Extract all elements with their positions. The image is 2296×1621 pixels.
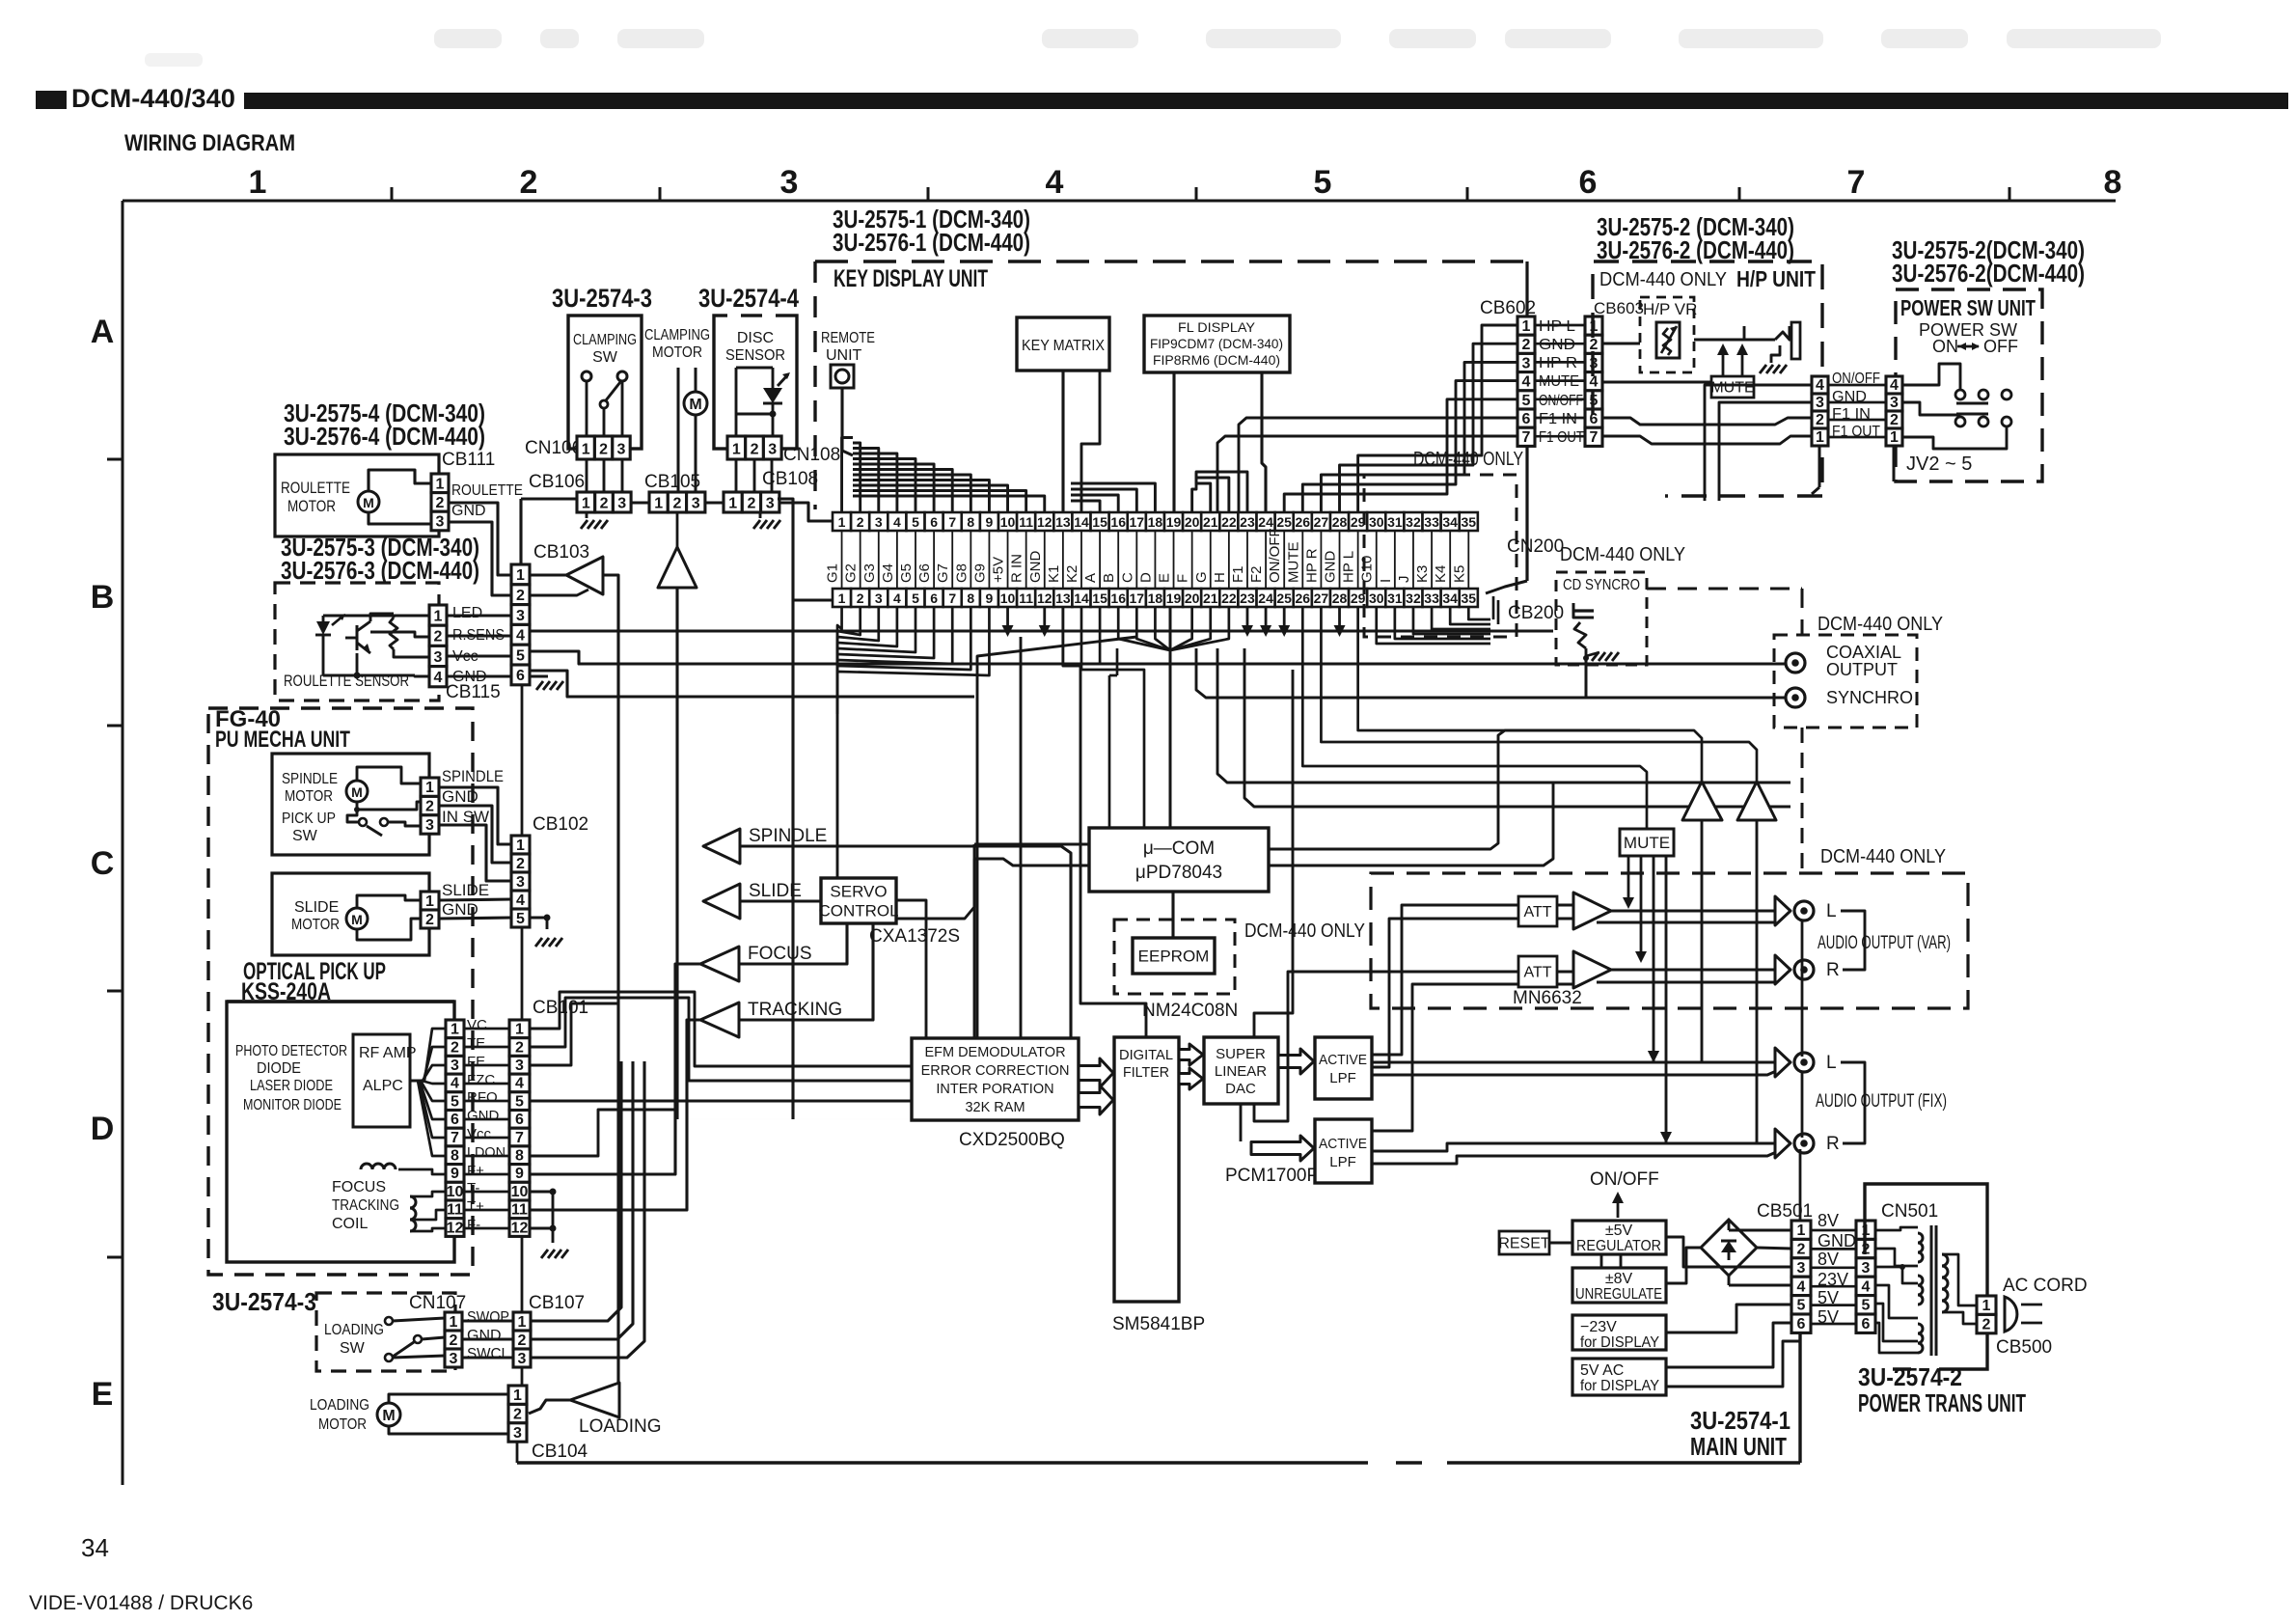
svg-text:15: 15 [1092, 591, 1107, 606]
wire CB108 pin3 down the page [778, 499, 793, 1119]
wire CB106-CB105 link [631, 501, 649, 504]
wire CB603 pin6 to power sw F1 [1602, 418, 1812, 425]
svg-text:POWER TRANS UNIT: POWER TRANS UNIT [1858, 1388, 2026, 1417]
svg-text:MOTOR: MOTOR [652, 344, 702, 361]
FIX R jack [1794, 1134, 1814, 1153]
wire DAC down to LPF2 [1240, 1104, 1243, 1141]
svg-text:33: 33 [1424, 514, 1439, 530]
wire mu-com bus to right 836 [1244, 648, 1790, 807]
wires coils to pickup connector [398, 1169, 446, 1174]
svg-text:8V: 8V [1818, 1211, 1839, 1230]
wires CN200 pins 26 27 29 down [1302, 607, 1647, 829]
svg-text:COAXIAL: COAXIAL [1826, 643, 1901, 662]
wires slide connector to CB102 [439, 899, 511, 900]
svg-text:FILTER: FILTER [1123, 1064, 1169, 1081]
clamping drive amp [658, 547, 697, 588]
slide motor M4 [346, 908, 368, 929]
CN200 inter-row wires [841, 531, 843, 589]
svg-text:PHOTO DETECTOR: PHOTO DETECTOR [235, 1043, 347, 1059]
svg-text:3U-2574-2: 3U-2574-2 [1858, 1362, 1962, 1391]
svg-text:R IN: R IN [1009, 554, 1025, 583]
svg-text:1: 1 [436, 476, 445, 492]
svg-text:DCM-440 ONLY: DCM-440 ONLY [1413, 449, 1523, 470]
svg-text:1: 1 [434, 609, 443, 625]
wire unregulate to bridge [1666, 1248, 1701, 1283]
+-5V regulator box [1572, 1221, 1666, 1254]
svg-text:ON/OFF: ON/OFF [1590, 1169, 1659, 1190]
svg-text:F1: F1 [1230, 565, 1246, 583]
wire slide amp to servo control [740, 899, 821, 902]
wire GND from 4-pin strip [1719, 402, 1812, 501]
wire ON/OFF from 4-pin strip [1705, 385, 1812, 501]
svg-text:MUTE: MUTE [1624, 834, 1670, 852]
svg-text:3: 3 [434, 649, 443, 666]
svg-text:4: 4 [515, 1076, 524, 1092]
svg-text:16: 16 [1110, 591, 1126, 606]
wire CB108 to key display unit [779, 503, 833, 521]
svg-text:H: H [1212, 572, 1228, 583]
svg-text:25: 25 [1276, 514, 1292, 530]
remote unit sensor [831, 365, 854, 388]
svg-text:3: 3 [766, 495, 775, 511]
wire RFO to EFM demodulator [530, 1099, 912, 1102]
bridge rectifier [1701, 1220, 1757, 1276]
svg-text:CN108: CN108 [783, 445, 840, 465]
svg-text:CN106: CN106 [525, 438, 582, 458]
pick up switch [359, 818, 367, 826]
svg-text:SPINDLE: SPINDLE [282, 771, 338, 787]
svg-text:1: 1 [1522, 318, 1531, 335]
wire tracking amp to servo [739, 923, 873, 1020]
photo LED of roulette sensor [316, 621, 330, 635]
wire CB105-CB108 link [705, 501, 724, 504]
wires ATT R to var amp [1557, 971, 1573, 974]
svg-text:ACTIVE: ACTIVE [1319, 1136, 1367, 1152]
svg-text:3: 3 [875, 514, 883, 530]
svg-text:GND: GND [1818, 1231, 1856, 1250]
dashed link cd syncro to coax box [1647, 588, 1802, 591]
wire spindle long line [740, 846, 1071, 1038]
svg-text:EFM DEMODULATOR: EFM DEMODULATOR [924, 1045, 1065, 1060]
-23V for display box [1572, 1315, 1666, 1350]
svg-text:21: 21 [1203, 591, 1218, 606]
svg-text:5: 5 [515, 1093, 524, 1110]
svg-text:Vcc: Vcc [467, 1126, 492, 1142]
top ruler line [123, 200, 2116, 203]
ground at CB103 pin6 [530, 674, 548, 677]
focus coil [361, 1164, 396, 1169]
svg-text:SLIDE: SLIDE [442, 881, 489, 899]
svg-text:L: L [1826, 901, 1837, 921]
svg-text:DIODE: DIODE [257, 1060, 301, 1077]
svg-text:FL DISPLAY: FL DISPLAY [1178, 319, 1256, 335]
svg-text:F1 IN: F1 IN [1539, 411, 1577, 427]
svg-text:B: B [91, 579, 115, 616]
svg-text:5: 5 [1522, 393, 1531, 409]
wire CB603 pin4 to mute [1602, 381, 1711, 384]
svg-text:CB104: CB104 [532, 1442, 588, 1462]
arrow on/off up [1617, 1195, 1620, 1218]
svg-text:2: 2 [513, 1407, 522, 1423]
svg-text:μ—COM: μ—COM [1143, 838, 1215, 859]
left border line [122, 201, 124, 1485]
svg-text:LOADING: LOADING [310, 1397, 369, 1414]
svg-text:2: 2 [434, 629, 443, 646]
svg-text:INTER PORATION: INTER PORATION [936, 1082, 1053, 1097]
svg-text:31: 31 [1387, 514, 1403, 530]
svg-text:B: B [1101, 573, 1117, 583]
svg-text:25: 25 [1276, 591, 1292, 606]
wire CB103 pin1 to roulette amp [531, 573, 566, 576]
wire loading amp to CB104 [529, 1400, 570, 1414]
svg-text:16: 16 [1110, 514, 1126, 530]
svg-text:4: 4 [516, 893, 525, 909]
block arrows filter to DAC [1179, 1044, 1203, 1065]
svg-text:20: 20 [1185, 591, 1200, 606]
svg-text:1: 1 [513, 1387, 522, 1404]
svg-text:D: D [1137, 572, 1154, 583]
svg-text:4: 4 [893, 514, 901, 530]
svg-text:4: 4 [1522, 374, 1531, 391]
transformer secondary winding [1942, 1254, 1948, 1312]
wires mu-com left side [837, 675, 974, 919]
wire remote unit to connector [842, 388, 853, 455]
var L R bracket [1841, 911, 1865, 970]
left border ticks [107, 458, 123, 461]
svg-text:3: 3 [1862, 1260, 1871, 1277]
svg-text:for DISPLAY: for DISPLAY [1580, 1334, 1659, 1351]
fix line amp R [1737, 782, 1776, 820]
spindle drive amp [703, 829, 740, 864]
svg-text:1: 1 [654, 495, 663, 511]
svg-text:FE: FE [467, 1054, 485, 1070]
pickup side connector [446, 1020, 464, 1038]
svg-text:GND: GND [442, 787, 478, 806]
svg-text:3U-2574-3: 3U-2574-3 [212, 1287, 316, 1316]
svg-text:8: 8 [967, 514, 974, 530]
svg-text:3: 3 [692, 495, 700, 511]
svg-text:M: M [689, 397, 701, 413]
svg-text:3: 3 [1797, 1260, 1806, 1277]
H/P VR potentiometer [1656, 322, 1680, 358]
svg-text:F-: F- [467, 1217, 480, 1233]
svg-text:2: 2 [518, 1333, 527, 1349]
svg-text:KEY MATRIX: KEY MATRIX [1022, 338, 1105, 354]
wire cd syncro down to synchro jack [1585, 658, 1588, 697]
wire 5VAC box to CB501 [1666, 1323, 1791, 1367]
svg-text:1: 1 [582, 495, 590, 511]
wire bundle CN200 pins 25-29 to CB602 [1284, 399, 1517, 512]
wire CB101 col down to CB107 [521, 1236, 524, 1312]
wires loading motor to CB104 [389, 1394, 508, 1403]
svg-text:2: 2 [1590, 337, 1599, 353]
loading drive amp [570, 1383, 619, 1417]
svg-text:1: 1 [515, 1022, 524, 1038]
power arrows CN200 pins 10 12 [1006, 607, 1009, 634]
wire key matrix to CN200 pin13 [1061, 371, 1064, 512]
svg-text:CB500: CB500 [1996, 1337, 2052, 1358]
power sw unit dashed box [1896, 289, 2042, 481]
svg-text:K2: K2 [1064, 565, 1080, 583]
svg-text:GND: GND [442, 900, 478, 919]
grounds at CB101 pins 10 12 [550, 1189, 557, 1195]
cd syncro jack [1573, 603, 1594, 618]
wire FL display to CN200 pin19 [1172, 372, 1175, 512]
tracking drive amp [700, 1003, 739, 1037]
svg-text:7: 7 [515, 1130, 524, 1146]
svg-text:11: 11 [447, 1202, 463, 1219]
svg-text:M: M [351, 912, 363, 927]
svg-text:3: 3 [518, 1351, 527, 1367]
svg-text:T+: T+ [467, 1198, 484, 1215]
svg-text:5: 5 [451, 1093, 459, 1110]
svg-text:F+: F+ [467, 1163, 484, 1179]
wire 5VAC second [1666, 1341, 1800, 1387]
DIGITAL FILTER box [1114, 1037, 1179, 1302]
svg-text:1: 1 [516, 838, 525, 854]
wire bundle CN200 pins 15-18 to key matrix [1071, 501, 1100, 512]
svg-text:18: 18 [1148, 591, 1163, 606]
wires CB501 to CN501 [1811, 1229, 1856, 1232]
svg-text:14: 14 [1074, 514, 1089, 530]
svg-text:REGULATOR: REGULATOR [1576, 1238, 1661, 1254]
svg-text:5: 5 [1314, 164, 1332, 201]
svg-text:PICK UP: PICK UP [282, 810, 336, 827]
RF AMP ALPC box [353, 1034, 410, 1127]
svg-text:7: 7 [1847, 164, 1866, 201]
svg-text:10: 10 [511, 1184, 529, 1200]
svg-text:SWCL: SWCL [467, 1346, 509, 1362]
svg-text:PCM1700P: PCM1700P [1225, 1166, 1319, 1186]
top ruler ticks [391, 187, 394, 201]
svg-text:AC CORD: AC CORD [2003, 1276, 2088, 1296]
svg-text:R: R [1826, 960, 1840, 980]
svg-text:14: 14 [1074, 591, 1089, 606]
svg-text:SLIDE: SLIDE [749, 881, 802, 901]
svg-text:11: 11 [1019, 514, 1033, 530]
svg-text:E: E [1157, 573, 1173, 583]
svg-text:REMOTE: REMOTE [821, 330, 875, 346]
wires secondary to CB500 [1942, 1254, 1977, 1305]
svg-text:I: I [1378, 579, 1394, 583]
svg-text:G5: G5 [898, 563, 915, 583]
svg-text:+5V: +5V [991, 557, 1007, 583]
wire R.SENS long line [531, 629, 1553, 632]
block arrow DAC to LPF2 [1251, 1136, 1314, 1161]
svg-text:2: 2 [1797, 1242, 1806, 1258]
svg-text:19: 19 [1166, 514, 1182, 530]
H/P VR dashed box [1640, 297, 1694, 372]
svg-text:MUTE: MUTE [1710, 380, 1754, 397]
svg-text:5: 5 [516, 911, 525, 927]
svg-text:3: 3 [516, 608, 525, 624]
svg-text:11: 11 [511, 1202, 528, 1219]
page header black tab [36, 91, 67, 109]
svg-text:3: 3 [516, 874, 525, 891]
svg-text:6: 6 [515, 1112, 524, 1128]
wire CN200 pin20 to synchro line [1196, 648, 1786, 698]
svg-text:SENSOR: SENSOR [725, 347, 785, 364]
wire roulette motor to CB111 [369, 470, 431, 491]
svg-text:1: 1 [425, 780, 434, 796]
svg-text:ROULETTE: ROULETTE [451, 482, 523, 499]
svg-text:5: 5 [912, 591, 919, 606]
svg-text:JV2 ~ 5: JV2 ~ 5 [1906, 453, 1972, 475]
svg-text:DAC: DAC [1225, 1081, 1256, 1097]
MUTE box (main) [1620, 829, 1674, 856]
svg-text:34: 34 [81, 1533, 109, 1562]
ACTIVE LPF box 2 [1315, 1119, 1372, 1183]
svg-text:30: 30 [1369, 591, 1384, 606]
svg-text:FZC: FZC [467, 1072, 495, 1088]
wires CB602 to CB603 [1535, 324, 1585, 327]
SUPER LINEAR DAC box [1204, 1037, 1278, 1104]
spindle motor wires [357, 767, 421, 783]
svg-text:28: 28 [1332, 514, 1348, 530]
svg-text:23: 23 [1240, 591, 1255, 606]
svg-text:10: 10 [1000, 514, 1016, 530]
svg-text:CN501: CN501 [1881, 1201, 1938, 1222]
svg-text:D: D [91, 1111, 115, 1147]
svg-text:2: 2 [436, 495, 445, 511]
svg-text:12: 12 [1037, 591, 1052, 606]
wire bundle CN200 pins 20-23 to FL display [1192, 473, 1196, 512]
svg-text:GND: GND [467, 1328, 502, 1344]
wire jack column to CB501 [1801, 920, 1804, 1057]
optical pickup box [227, 1002, 454, 1262]
svg-text:LDON: LDON [467, 1144, 506, 1161]
svg-text:CB102: CB102 [533, 814, 588, 835]
block arrow DAC to LPF1 [1278, 1049, 1314, 1074]
svg-text:for DISPLAY: for DISPLAY [1580, 1378, 1659, 1394]
EEPROM dashed box [1114, 920, 1235, 994]
svg-text:FOCUS: FOCUS [748, 944, 812, 964]
EFM demodulator box [912, 1038, 1079, 1120]
svg-text:3U-2576-3 (DCM-440): 3U-2576-3 (DCM-440) [281, 556, 479, 585]
wire fix R vertical [1756, 820, 1759, 1143]
transformer primary windings [1918, 1233, 1923, 1262]
wire LPF2 out to fix R [1372, 1143, 1775, 1151]
svg-text:6: 6 [1522, 411, 1531, 427]
svg-text:3: 3 [780, 164, 799, 201]
svg-text:PU MECHA UNIT: PU MECHA UNIT [215, 727, 350, 753]
svg-text:9: 9 [986, 591, 994, 606]
svg-text:DISC: DISC [737, 330, 774, 346]
svg-text:27: 27 [1314, 514, 1329, 530]
svg-text:20: 20 [1185, 514, 1200, 530]
svg-text:8: 8 [451, 1147, 459, 1164]
svg-text:HP R: HP R [1303, 548, 1320, 583]
svg-text:3: 3 [450, 1351, 458, 1367]
svg-text:1: 1 [451, 1022, 459, 1038]
svg-text:LOADING: LOADING [579, 1416, 662, 1437]
svg-text:CB103: CB103 [533, 542, 589, 563]
svg-text:3: 3 [451, 1058, 459, 1074]
svg-text:1: 1 [1797, 1223, 1806, 1239]
ghost smudges top [434, 29, 502, 48]
wire clamping amp down the page [675, 588, 678, 1119]
connector CN200 bottom row 1-35 [833, 589, 851, 607]
svg-text:K1: K1 [1046, 565, 1062, 583]
svg-text:9: 9 [986, 514, 994, 530]
svg-text:2: 2 [425, 912, 434, 928]
svg-text:LPF: LPF [1329, 1154, 1356, 1170]
spindle motor connector [421, 778, 439, 796]
svg-text:OUTPUT: OUTPUT [1826, 660, 1898, 679]
svg-text:3: 3 [436, 513, 445, 530]
slide motor wires [357, 895, 421, 908]
MUTE box (H/P) [1711, 376, 1754, 398]
svg-text:G3: G3 [861, 563, 878, 583]
svg-text:MN6632: MN6632 [1513, 988, 1582, 1008]
synchro jack [1786, 688, 1805, 707]
pin-to-pin wires 4p [1828, 384, 1886, 387]
svg-text:UNREGULATE: UNREGULATE [1575, 1286, 1662, 1303]
svg-text:4: 4 [1590, 374, 1599, 391]
svg-text:2: 2 [600, 495, 609, 511]
svg-text:CLAMPING: CLAMPING [644, 327, 710, 343]
photo transistor of roulette sensor [356, 625, 359, 650]
page header rule bar [244, 93, 2288, 109]
svg-text:MOTOR: MOTOR [285, 788, 333, 805]
AC plug [2005, 1297, 2017, 1332]
key display unit dashed boundary [815, 260, 1527, 262]
svg-text:KEY DISPLAY UNIT: KEY DISPLAY UNIT [834, 265, 988, 292]
svg-text:2: 2 [672, 495, 681, 511]
wires var amp L to jack [1611, 910, 1775, 913]
svg-text:DCM-440/340: DCM-440/340 [71, 84, 235, 113]
wires regulator to unregulate [1600, 1254, 1603, 1268]
slide drive amp [703, 884, 740, 919]
svg-text:7: 7 [451, 1130, 459, 1146]
svg-text:13: 13 [1055, 591, 1071, 606]
svg-text:33: 33 [1424, 591, 1439, 606]
wire mu-com bus to right 811 [1217, 648, 1790, 783]
svg-text:15: 15 [1092, 514, 1107, 530]
svg-text:3: 3 [617, 442, 626, 458]
svg-text:32: 32 [1406, 514, 1421, 530]
svg-text:DCM-440 ONLY: DCM-440 ONLY [1818, 614, 1943, 635]
disc sensor photodiode [763, 388, 782, 403]
EEPROM box [1133, 938, 1215, 974]
svg-text:SYNCHRO: SYNCHRO [1826, 688, 1913, 707]
svg-text:R: R [1826, 1134, 1840, 1154]
svg-text:C: C [1119, 572, 1135, 583]
svg-text:OFF: OFF [1983, 337, 2018, 356]
svg-text:RESET: RESET [1498, 1236, 1550, 1252]
svg-text:35: 35 [1462, 514, 1477, 530]
svg-text:CB105: CB105 [644, 472, 700, 492]
svg-text:2: 2 [516, 588, 525, 604]
svg-text:G1: G1 [825, 563, 841, 583]
svg-text:23: 23 [1240, 514, 1255, 530]
svg-text:1: 1 [1982, 1298, 1991, 1314]
svg-text:ATT: ATT [1523, 904, 1551, 920]
svg-text:DIGITAL: DIGITAL [1119, 1047, 1173, 1063]
svg-text:TE: TE [467, 1035, 485, 1052]
svg-text:5: 5 [1862, 1298, 1871, 1314]
svg-text:MONITOR DIODE: MONITOR DIODE [243, 1097, 342, 1113]
svg-text:UNIT: UNIT [826, 347, 862, 364]
svg-text:CLAMPING: CLAMPING [573, 332, 637, 348]
wire CB107 to CB104 column [521, 1367, 524, 1386]
wires transformer [1875, 1227, 1918, 1230]
connector CN200 top row 1-35 [833, 512, 851, 531]
svg-text:6: 6 [1579, 164, 1598, 201]
wire key display right edge to CN200 [1486, 581, 1527, 593]
svg-text:6: 6 [930, 514, 938, 530]
svg-text:ALPC: ALPC [363, 1078, 403, 1094]
